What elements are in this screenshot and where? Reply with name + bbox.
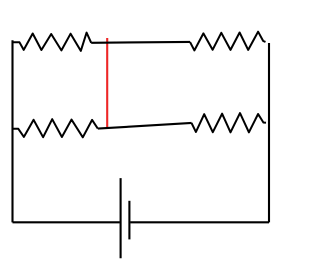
wire left vertical: [11, 40, 13, 222]
wire bottom-right: [131, 221, 270, 223]
resistor R3 (middle-left): [13, 119, 98, 137]
battery B1 short plate (negative): [128, 201, 130, 240]
resistor R1 (top-left): [13, 33, 92, 51]
wire right vertical: [268, 43, 270, 222]
resistor R4 (middle-right): [192, 113, 267, 132]
wire top middle: [91, 41, 190, 44]
resistor R2 (top-right): [190, 32, 266, 51]
wire (red bridge between top node and middle node): [106, 38, 108, 128]
wire middle: [98, 123, 192, 129]
wire bottom-left: [13, 221, 120, 223]
battery B1 long plate (positive): [120, 178, 122, 258]
